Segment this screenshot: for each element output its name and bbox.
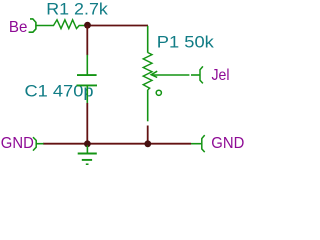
potentiometer P1 [143, 26, 189, 122]
svg-text:GND: GND [211, 135, 244, 152]
port Be [9, 19, 36, 36]
port Jel [191, 66, 230, 83]
port GND left [1, 135, 44, 152]
wire right vertical [147, 126, 149, 144]
wire left vertical lower [86, 103, 88, 144]
svg-text:R1 2.7k: R1 2.7k [46, 1, 108, 19]
node junction bottom right [144, 140, 151, 147]
port GND right [191, 135, 244, 152]
label C1 470p [25, 83, 94, 101]
label R1 2.7k [46, 1, 108, 19]
wire bottom horizontal [43, 143, 191, 145]
svg-text:Be: Be [9, 19, 28, 36]
capacitor C1 [77, 55, 98, 104]
svg-text:P1 50k: P1 50k [157, 34, 215, 52]
ground symbol [78, 146, 97, 165]
wire top horizontal [88, 25, 149, 27]
svg-text:GND: GND [1, 135, 34, 152]
resistor R1 [36, 20, 87, 29]
svg-text:Jel: Jel [212, 67, 230, 84]
node junction bottom left [84, 140, 91, 147]
wire left vertical upper [86, 26, 88, 56]
label P1 50k [157, 34, 215, 52]
node junction top [84, 22, 91, 29]
